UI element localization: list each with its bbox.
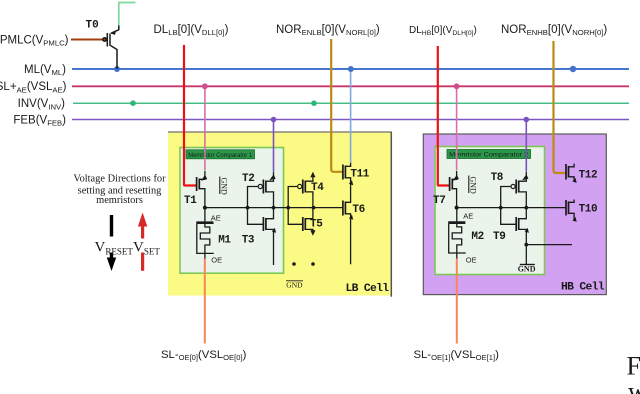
svg-text:T11: T11 bbox=[350, 169, 369, 181]
svg-text:F: F bbox=[627, 351, 640, 380]
svg-text:T3: T3 bbox=[242, 235, 255, 247]
svg-text:T5: T5 bbox=[310, 219, 323, 231]
svg-text:M2: M2 bbox=[471, 231, 483, 243]
svg-text:w: w bbox=[628, 377, 640, 394]
svg-text:T1: T1 bbox=[184, 195, 197, 207]
svg-text:GND: GND bbox=[219, 178, 228, 196]
svg-text:OE: OE bbox=[211, 256, 222, 265]
svg-text:HB Cell: HB Cell bbox=[561, 282, 605, 294]
svg-text:OE: OE bbox=[466, 256, 477, 265]
svg-text:T10: T10 bbox=[579, 204, 598, 216]
svg-text:Voltage Directions for: Voltage Directions for bbox=[73, 174, 166, 185]
svg-text:M1: M1 bbox=[218, 235, 231, 247]
svg-text:T7: T7 bbox=[433, 195, 445, 207]
svg-text:T6: T6 bbox=[352, 204, 364, 216]
svg-text:T2: T2 bbox=[242, 173, 254, 185]
svg-text:T9: T9 bbox=[493, 231, 505, 243]
svg-text:T8: T8 bbox=[491, 172, 504, 184]
svg-text:Memristor Comparator 1: Memristor Comparator 1 bbox=[188, 153, 253, 159]
svg-text:GND: GND bbox=[286, 281, 303, 290]
svg-text:AE: AE bbox=[211, 214, 221, 223]
svg-text:T0: T0 bbox=[86, 20, 99, 32]
svg-text:AE: AE bbox=[463, 212, 473, 221]
svg-text:GND: GND bbox=[518, 265, 536, 274]
svg-text:GND: GND bbox=[469, 177, 478, 195]
svg-text:memristors: memristors bbox=[96, 195, 143, 206]
svg-text:Memristor Comparator 2: Memristor Comparator 2 bbox=[449, 153, 529, 159]
svg-text:T4: T4 bbox=[311, 182, 324, 194]
svg-text:T12: T12 bbox=[579, 170, 598, 182]
svg-text:LB Cell: LB Cell bbox=[346, 283, 390, 295]
